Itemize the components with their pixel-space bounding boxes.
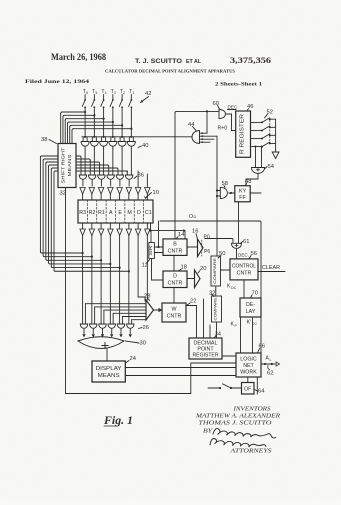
svg-text:ET AL: ET AL [186,59,202,65]
svg-text:CNTR: CNTR [167,314,182,320]
svg-text:A: A [109,210,113,216]
svg-text:CONTROL: CONTROL [232,264,256,270]
svg-text:64: 64 [258,389,265,395]
svg-text:38: 38 [41,137,47,143]
svg-text:2 Sheets-Sheet 1: 2 Sheets-Sheet 1 [215,82,262,88]
svg-text:32: 32 [209,291,215,297]
svg-text:SHIFT RIGHT: SHIFT RIGHT [60,147,65,183]
svg-text:24: 24 [130,356,137,362]
svg-text:DEC.: DEC. [238,253,249,258]
svg-text:SR: SR [148,246,153,256]
svg-text:March 26, 1968: March 26, 1968 [51,52,106,62]
svg-text:CNTR: CNTR [168,281,183,287]
svg-text:32: 32 [60,191,66,197]
svg-text:B: B [173,242,177,248]
svg-text:30: 30 [140,341,146,347]
svg-text:20: 20 [200,266,206,272]
svg-text:DE-: DE- [246,302,255,308]
svg-text:KY: KY [239,189,247,195]
svg-text:R REGISTER: R REGISTER [240,114,246,154]
svg-text:W: W [172,307,177,313]
svg-text:36: 36 [138,173,144,179]
svg-text:E: E [118,210,122,216]
svg-text:WORK: WORK [240,370,257,376]
svg-text:28: 28 [144,294,150,300]
svg-text:61: 61 [243,239,249,245]
svg-text:R1: R1 [98,210,105,216]
svg-text:C1: C1 [145,210,152,216]
svg-text:MEANS: MEANS [98,373,120,379]
svg-text:THOMAS J. SCUITTO: THOMAS J. SCUITTO [199,421,273,427]
svg-text:OF: OF [244,387,252,393]
svg-text:T. J. SCUITTO: T. J. SCUITTO [135,58,182,65]
svg-text:D: D [173,274,177,280]
svg-text:P0: P0 [204,235,210,241]
svg-text:10: 10 [153,190,159,196]
svg-text:BY: BY [203,429,213,435]
svg-text:CNTR: CNTR [168,249,183,255]
svg-text:40: 40 [142,143,148,149]
svg-text:DC: DC [252,322,257,326]
svg-text:70: 70 [252,291,258,297]
svg-text:NET: NET [243,363,254,369]
svg-text:54: 54 [268,164,275,170]
svg-text:16: 16 [192,229,198,235]
svg-text:MATTHEW A. ALEXANDER: MATTHEW A. ALEXANDER [195,414,281,420]
svg-text:R3: R3 [79,210,86,216]
svg-text:22: 22 [190,299,196,305]
svg-text:18: 18 [181,265,187,271]
svg-text:INVENTORS: INVENTORS [232,407,270,413]
svg-text:LAY: LAY [246,309,256,315]
svg-text:MEANS: MEANS [67,155,72,177]
svg-text:26: 26 [143,325,149,331]
svg-text:O: O [189,214,193,220]
svg-text:62: 62 [267,371,273,377]
svg-text:3,375,356: 3,375,356 [230,55,272,65]
svg-text:FF: FF [239,195,246,201]
svg-text:ATTORNEYS: ATTORNEYS [229,449,271,455]
svg-text:REGISTER: REGISTER [193,353,219,359]
svg-text:L: L [270,358,272,362]
svg-text:Fig. 1: Fig. 1 [103,415,133,427]
svg-text:P6: P6 [204,249,210,255]
svg-text:COMPARE: COMPARE [213,297,218,320]
svg-text:COMPARE: COMPARE [212,257,217,284]
svg-text:44: 44 [188,122,195,128]
svg-text:LOGIC: LOGIC [240,357,257,363]
svg-text:56: 56 [251,251,257,257]
svg-text:CLEAR: CLEAR [262,265,280,271]
svg-text:CALCULATOR DECIMAL POINT ALIGN: CALCULATOR DECIMAL POINT ALIGNMENT APPAR… [105,69,235,74]
svg-text:Filed June 12, 1964: Filed June 12, 1964 [25,79,89,85]
svg-text:DISPLAY: DISPLAY [96,366,122,372]
svg-text:CNTR: CNTR [237,271,252,277]
svg-text:14: 14 [178,232,185,238]
svg-text:D: D [194,215,197,219]
svg-text:R2: R2 [89,210,96,216]
svg-text:42: 42 [145,91,151,97]
svg-text:M: M [127,210,131,216]
svg-text:DC: DC [231,286,237,290]
svg-text:R+0: R+0 [218,126,228,132]
svg-text:K': K' [247,320,252,326]
svg-text:D: D [137,210,141,216]
svg-text:DEC: DEC [228,105,238,110]
